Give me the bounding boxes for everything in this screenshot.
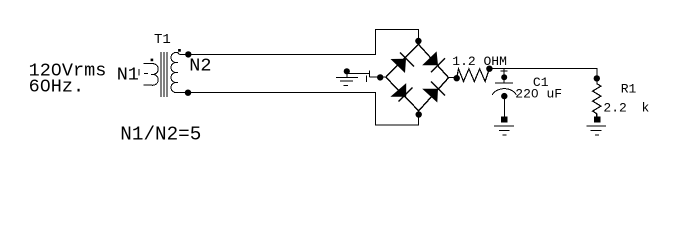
svg-text:N2: N2	[189, 56, 211, 77]
svg-text:N1/N2=5: N1/N2=5	[120, 124, 201, 146]
svg-text:N1: N1	[117, 65, 139, 86]
svg-text:T1: T1	[154, 32, 171, 48]
svg-text:R1: R1	[621, 81, 637, 96]
svg-text:2.2: 2.2	[603, 101, 626, 116]
svg-text:k: k	[642, 101, 650, 116]
svg-text:60Hz.: 60Hz.	[29, 76, 85, 97]
svg-text:220 uF: 220 uF	[515, 86, 562, 101]
svg-text:1.2 OHM: 1.2 OHM	[452, 54, 507, 69]
